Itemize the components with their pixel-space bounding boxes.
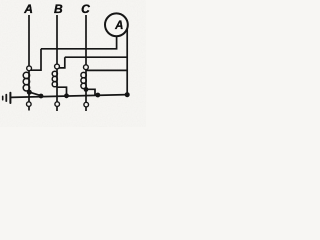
junction dot C coil bottom	[84, 87, 89, 92]
transformer T1 coil (phase A secondary)	[23, 72, 29, 91]
transformer T2 coil (phase B secondary)	[52, 71, 57, 87]
terminal circle B top	[55, 64, 60, 69]
wire A coil bottom link to bus	[30, 92, 41, 95]
junction dot bus right end	[125, 92, 130, 97]
terminal circle C bottom	[84, 102, 89, 107]
ground bus horizontal	[11, 95, 127, 98]
wire A secondary top jog	[30, 49, 41, 70]
junction dot on bus x41	[39, 94, 44, 99]
ammeter PA1	[105, 13, 128, 36]
terminal circle B bottom	[55, 102, 60, 107]
ground	[3, 93, 11, 103]
svg-text:A: A	[23, 2, 33, 16]
junction dot A coil bottom	[27, 90, 32, 95]
wire B coil bottom jog to bus	[57, 87, 67, 96]
svg-text:C: C	[81, 2, 90, 16]
svg-text:A: A	[114, 20, 123, 32]
wire phase B vertical	[56, 15, 58, 111]
background	[0, 0, 146, 127]
transformer T3 coil (phase C secondary)	[81, 72, 86, 88]
wire B secondary top jog	[58, 57, 65, 68]
wire ammeter right leg down	[126, 28, 128, 95]
junction dot B jog on bus	[64, 93, 69, 98]
wire 2 B to right bus	[65, 56, 127, 58]
terminal circle C top	[84, 65, 89, 70]
terminal circle A top	[27, 66, 32, 71]
terminal circle A bottom	[27, 102, 32, 107]
wire 3 C to right bus	[86, 69, 127, 71]
wire phase A vertical	[28, 15, 30, 111]
wire phase C vertical	[85, 15, 87, 111]
svg-text:B: B	[54, 2, 63, 16]
wire 1 to ammeter left terminal	[41, 36, 117, 49]
wire C coil bottom jog to bus	[86, 89, 95, 95]
junction dot C jog on bus	[95, 93, 100, 98]
